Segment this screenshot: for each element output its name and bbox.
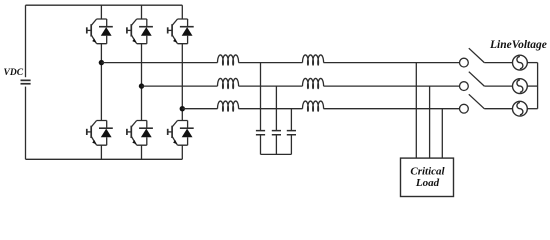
IGBT Q2 bbox=[87, 121, 107, 146]
svg-text:Critical: Critical bbox=[410, 166, 445, 178]
wire: phase A tap down to capacitor C1 bbox=[260, 63, 262, 130]
node: phase C output junction bbox=[180, 106, 185, 111]
wire: phase B drop to critical load bbox=[429, 86, 431, 158]
capacitor C3 bbox=[287, 131, 296, 135]
wire: phase C tap down to capacitor C3 bbox=[290, 109, 292, 130]
wire: leg B midpoint vertical bbox=[141, 44, 143, 121]
wire: switch SW1 to source bbox=[484, 62, 512, 64]
wire: source VC to neutral bus bbox=[527, 108, 537, 110]
wire: phase A drop to critical load bbox=[415, 63, 417, 159]
diode D4 bbox=[139, 121, 153, 146]
svg-text:Load: Load bbox=[415, 177, 440, 189]
diode D3 bbox=[139, 19, 153, 44]
label Critical Load bbox=[410, 166, 445, 190]
wire: phase A line (inverter to filter) bbox=[101, 62, 217, 64]
switch SW2 terminal (phase B) bbox=[460, 82, 469, 91]
switch SW2 blade bbox=[469, 72, 485, 86]
wire: phase B line (filter to switch) bbox=[324, 85, 460, 87]
wire: switch SW3 to source bbox=[484, 108, 512, 110]
wire: capacitor C2 bottom lead bbox=[275, 135, 277, 154]
wire: leg A bottom stub bbox=[100, 145, 102, 159]
wire: leg A top stub bbox=[100, 5, 102, 19]
wire: leg A midpoint vertical bbox=[100, 44, 102, 121]
AC source VB (line voltage) bbox=[513, 79, 528, 94]
wire: capacitor C1 bottom lead bbox=[260, 135, 262, 154]
switch SW3 blade bbox=[469, 94, 485, 108]
IGBT Q1 bbox=[87, 19, 107, 44]
wire: switch SW2 to source bbox=[484, 85, 512, 87]
capacitor C1 bbox=[256, 131, 265, 135]
wire: phase C line (between inductors) bbox=[239, 108, 303, 110]
inductor L1a bbox=[218, 55, 239, 65]
wire: phase B line (inverter to filter) bbox=[142, 85, 218, 87]
DC source VDC (battery plates) bbox=[21, 80, 31, 85]
switch SW1 terminal (phase A) bbox=[460, 58, 469, 67]
IGBT Q6 bbox=[168, 121, 188, 146]
inductor L2c bbox=[303, 101, 324, 111]
critical load box bbox=[401, 158, 454, 196]
switch SW3 terminal (phase C) bbox=[460, 104, 469, 113]
wire: source VA to neutral bus bbox=[527, 62, 537, 64]
AC source VC (line voltage) bbox=[513, 101, 528, 116]
wire: phase C line (inverter to filter) bbox=[182, 108, 217, 110]
wire: phase A line (between inductors) bbox=[239, 62, 303, 64]
capacitor C2 bbox=[272, 131, 281, 135]
wire: phase B line (between inductors) bbox=[239, 85, 303, 87]
IGBT Q4 bbox=[127, 121, 147, 146]
inductor L2a bbox=[303, 55, 324, 65]
inductor L2b bbox=[303, 78, 324, 88]
svg-text:VDC: VDC bbox=[4, 68, 24, 78]
wire: leg C midpoint vertical bbox=[181, 44, 183, 121]
wire: leg B bottom stub bbox=[141, 145, 143, 159]
svg-text:LineVoltage: LineVoltage bbox=[489, 39, 547, 51]
wire: capacitor common bus bbox=[261, 153, 292, 155]
wire: leg C top stub bbox=[181, 5, 183, 19]
wire: phase B tap down to capacitor C2 bbox=[275, 86, 277, 130]
wire: leg B top stub bbox=[141, 5, 143, 19]
wire: phase A line (filter to switch) bbox=[324, 62, 460, 64]
IGBT Q3 bbox=[127, 19, 147, 44]
wire: DC bus left lower bbox=[25, 87, 27, 160]
diode D6 bbox=[180, 121, 194, 146]
wire: phase C drop to critical load bbox=[441, 109, 443, 158]
diode D2 bbox=[99, 121, 113, 146]
wire: source neutral bus bbox=[537, 63, 539, 109]
node: phase B output junction bbox=[139, 83, 144, 88]
inductor L1c bbox=[218, 101, 239, 111]
node: phase A output junction bbox=[99, 60, 104, 65]
wire: DC bus top rail bbox=[26, 4, 183, 6]
wire: source VB to neutral bus bbox=[527, 85, 537, 87]
diode D5 bbox=[180, 19, 194, 44]
switch SW1 blade bbox=[469, 48, 485, 62]
IGBT Q5 bbox=[168, 19, 188, 44]
diode D1 bbox=[99, 19, 113, 44]
AC source VA (line voltage) bbox=[513, 55, 528, 70]
inductor L1b bbox=[218, 78, 239, 88]
wire: phase C line (filter to switch) bbox=[324, 108, 460, 110]
wire: DC bus left upper bbox=[25, 5, 27, 77]
wire: capacitor C3 bottom lead bbox=[290, 135, 292, 154]
wire: leg C bottom stub bbox=[181, 145, 183, 159]
wire: DC bus bottom rail bbox=[26, 158, 183, 160]
